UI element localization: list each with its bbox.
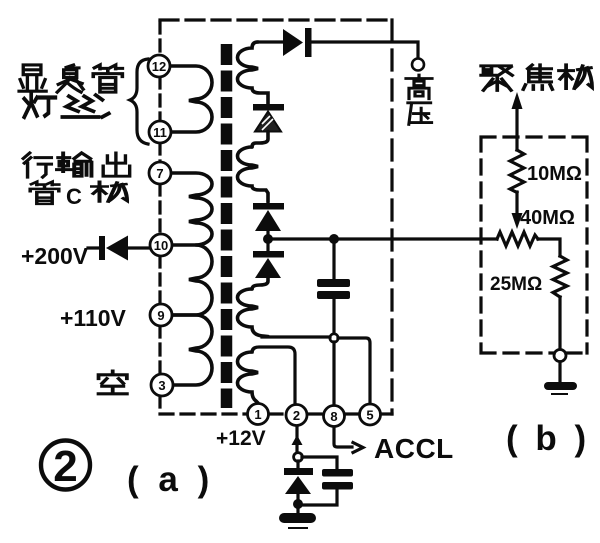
dashed enclosure box (a) bottom edge bbox=[160, 412, 392, 415]
wire: junction to pin 8 bbox=[332, 342, 335, 405]
hanzi chu (out) bbox=[103, 153, 129, 176]
wire: terminal to ground bbox=[558, 362, 561, 381]
svg-text:( a ): ( a ) bbox=[127, 460, 214, 499]
svg-text:11: 11 bbox=[153, 125, 167, 140]
hanzi xiang (image) bbox=[57, 65, 83, 92]
wire D2 to S2 bbox=[252, 132, 268, 148]
dashed enclosure box (a) left edge bbox=[158, 22, 161, 412]
wire: junction to pin 5 bbox=[338, 338, 370, 404]
resistor 25M ohm bbox=[553, 256, 567, 297]
wire: D5 to bottom node bbox=[296, 493, 299, 504]
wire: node to capacitor C1 bbox=[332, 242, 335, 279]
figure number 2 bbox=[41, 441, 90, 492]
svg-text:40MΩ: 40MΩ bbox=[520, 207, 575, 229]
EHT rectifier diode D1 bbox=[283, 28, 312, 57]
resistor 10M ohm bbox=[510, 150, 524, 193]
hanzi guan 2 bbox=[30, 182, 59, 204]
focus up arrowhead bbox=[512, 92, 523, 109]
hanzi jiao (focus-2) bbox=[523, 65, 552, 89]
node: open junction at pins 8/5 wire bbox=[330, 334, 338, 342]
wire: pin 2 down to clamp node bbox=[295, 426, 298, 453]
svg-text:10MΩ: 10MΩ bbox=[527, 163, 582, 185]
diode D5 bbox=[284, 468, 313, 494]
svg-text:+200V: +200V bbox=[21, 243, 89, 269]
dashed enclosure box (a) right edge bbox=[390, 20, 393, 414]
capacitor C1 plates bbox=[317, 279, 350, 299]
secondary winding S2 bbox=[238, 147, 269, 202]
node: junction at rectifier tap bbox=[263, 234, 273, 244]
node: junction above filter capacitor bbox=[329, 234, 339, 244]
hanzi si (filament) bbox=[63, 95, 109, 117]
svg-text:+110V: +110V bbox=[60, 305, 127, 331]
wire: node to ground bbox=[296, 509, 299, 513]
hanzi shu (output) bbox=[57, 153, 91, 176]
hanzi gao (high) bbox=[406, 75, 432, 99]
primary winding P2 (pins 7-10) bbox=[171, 173, 212, 245]
pin 9 bbox=[150, 304, 172, 326]
pin 2 bbox=[286, 405, 307, 426]
pin 11 bbox=[149, 121, 171, 143]
wire: capacitor C1 to lower junction bbox=[332, 299, 335, 334]
hanzi xing (row) bbox=[23, 153, 51, 177]
pin 12 bbox=[148, 55, 170, 77]
secondary winding S3 bbox=[238, 289, 269, 337]
wire: focus arrow shaft bbox=[515, 108, 518, 150]
diode D2 (hatched) bbox=[253, 104, 284, 132]
pin 1 bbox=[248, 404, 269, 425]
svg-text:12: 12 bbox=[152, 59, 166, 74]
wire: pin 8 to ACCL arrow bbox=[334, 427, 352, 447]
node: clamp top junction (open) bbox=[294, 453, 303, 462]
transformer core (thick dashed bar) bbox=[221, 44, 233, 408]
hanzi ya (voltage) bbox=[408, 103, 432, 125]
svg-text:9: 9 bbox=[157, 308, 164, 323]
wire: winding S4 top to pin 2 bbox=[252, 347, 295, 404]
svg-text:+12V: +12V bbox=[216, 427, 266, 450]
hanzi deng (lamp) bbox=[24, 94, 55, 117]
svg-text:( b ): ( b ) bbox=[506, 419, 590, 458]
pin 7 bbox=[149, 162, 171, 184]
wire: winding S3 bottom to junction bbox=[262, 335, 330, 338]
wire: capacitor C2 bottom to node bbox=[303, 489, 337, 505]
wire: diode node to focus network (horizontal) bbox=[268, 237, 497, 240]
arrow up on pin2 wire bbox=[292, 435, 303, 445]
hanzi guan (tube) bbox=[93, 65, 122, 92]
dashed box (b) bbox=[481, 137, 587, 353]
svg-text:10: 10 bbox=[154, 238, 168, 253]
secondary winding S4 bbox=[238, 352, 259, 403]
wire: 10M ohm to wiper arrow bbox=[515, 192, 518, 213]
wire EHT top: secondary top to rectifier and terminal bbox=[258, 42, 418, 58]
dashed enclosure box (a) top edge bbox=[160, 18, 392, 21]
pin 5 bbox=[360, 404, 381, 425]
ACCL open arrowhead bbox=[353, 443, 363, 453]
wire: 25M ohm to terminal bbox=[558, 297, 561, 349]
hanzi ji (electrode) bbox=[92, 182, 127, 202]
brace for pins 12-11 bbox=[130, 59, 148, 144]
svg-text:7: 7 bbox=[156, 166, 163, 181]
capacitor C2 plates bbox=[322, 469, 353, 490]
pin 3 bbox=[151, 374, 173, 396]
wire D4 to S3 bbox=[252, 278, 268, 289]
svg-text:2: 2 bbox=[293, 408, 300, 423]
pin 8 bbox=[324, 406, 345, 427]
svg-text:25MΩ: 25MΩ bbox=[490, 274, 542, 295]
wire: pin 10 to +200V diode bbox=[88, 246, 149, 249]
wiper down arrowhead bbox=[512, 213, 523, 229]
svg-text:1: 1 bbox=[254, 407, 261, 422]
wire: clamp node right to capacitor C2 bbox=[302, 457, 337, 469]
hanzi kong (empty) bbox=[99, 371, 127, 394]
wire: pot to 25M ohm bbox=[538, 239, 560, 256]
secondary winding S1 bbox=[238, 42, 269, 104]
primary winding P3 (pins 10-9) bbox=[171, 245, 212, 315]
diode D4 bbox=[253, 251, 284, 278]
hanzi ji (focus-3) bbox=[559, 65, 592, 89]
svg-text:ACCL: ACCL bbox=[374, 433, 454, 464]
+200V diode D6 bbox=[99, 236, 128, 261]
wire node to D4 bbox=[266, 243, 269, 251]
svg-text:2: 2 bbox=[53, 442, 77, 491]
ground bar (focus box) bbox=[544, 382, 577, 394]
focus box bottom terminal bbox=[554, 350, 566, 362]
svg-text:C: C bbox=[66, 184, 82, 209]
hanzi xian (display) bbox=[19, 65, 46, 91]
hanzi ju (focus-1) bbox=[481, 66, 512, 90]
wire D3 to node bbox=[266, 231, 269, 236]
diode D3 bbox=[253, 203, 284, 231]
svg-text:8: 8 bbox=[330, 409, 337, 424]
primary winding P4 (pins 9-3) bbox=[171, 315, 212, 385]
svg-text:5: 5 bbox=[366, 408, 373, 423]
wire: clamp node to diode D5 bbox=[296, 461, 299, 468]
pin 10 bbox=[150, 234, 172, 256]
EHT terminal circle bbox=[412, 59, 424, 71]
primary winding P1 (pins 12-11) bbox=[171, 66, 212, 132]
svg-text:3: 3 bbox=[158, 378, 165, 393]
node: clamp bottom junction bbox=[293, 499, 303, 509]
potentiometer 40M ohm zigzag bbox=[497, 232, 538, 246]
ground bar (clamp) bbox=[279, 513, 316, 528]
